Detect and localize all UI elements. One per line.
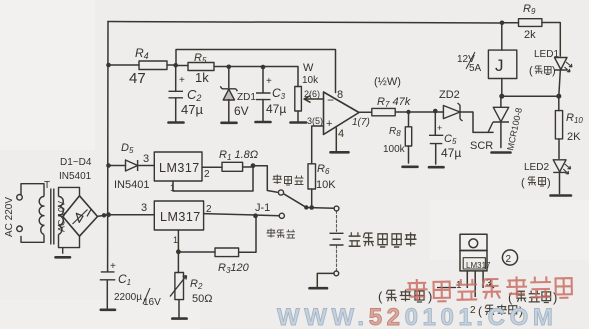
svg-text:(: ( (529, 65, 533, 77)
svg-text:): ) (552, 65, 556, 77)
svg-text:+: + (179, 75, 185, 86)
svg-text:R3120: R3120 (218, 262, 250, 275)
svg-text:1k: 1k (195, 70, 209, 85)
svg-text:AC 10V: AC 10V (57, 201, 67, 232)
svg-text:3: 3 (141, 202, 147, 214)
svg-text:AC 220V: AC 220V (4, 197, 15, 237)
svg-text:+: + (437, 123, 442, 133)
svg-text:J-1: J-1 (255, 202, 270, 214)
svg-text:(: ( (378, 289, 383, 304)
svg-text:1: 1 (173, 235, 178, 245)
svg-text:LED1: LED1 (534, 49, 559, 60)
svg-text:50Ω: 50Ω (192, 293, 212, 305)
svg-text:IN5401: IN5401 (114, 179, 149, 191)
svg-text:2(6): 2(6) (304, 89, 320, 99)
svg-text:5A: 5A (469, 63, 482, 74)
svg-text:(: ( (521, 177, 525, 189)
svg-text:+: + (326, 118, 332, 130)
svg-text:4: 4 (338, 128, 344, 140)
svg-text:1(7): 1(7) (352, 117, 370, 128)
svg-text:T: T (44, 180, 50, 191)
svg-text:IN5401: IN5401 (59, 171, 92, 182)
svg-text:LM317: LM317 (466, 261, 491, 270)
svg-text:6V: 6V (234, 104, 249, 118)
svg-text:10k: 10k (302, 75, 319, 86)
svg-text:3(5): 3(5) (307, 116, 323, 126)
svg-text:LM317: LM317 (160, 210, 201, 224)
svg-text:47: 47 (129, 70, 146, 87)
svg-text:2: 2 (204, 169, 210, 180)
svg-text:(: ( (508, 290, 513, 305)
svg-text:1: 1 (170, 183, 175, 193)
svg-text:100k: 100k (383, 144, 406, 155)
svg-text:10K: 10K (316, 179, 336, 191)
svg-text:): ) (428, 289, 432, 304)
svg-text:R1 1.8Ω: R1 1.8Ω (219, 149, 258, 162)
svg-text:47µ: 47µ (181, 102, 203, 117)
svg-text:W: W (303, 62, 314, 74)
svg-text:2k: 2k (524, 29, 536, 41)
svg-text:LED2: LED2 (524, 162, 549, 173)
svg-text:): ) (547, 177, 551, 189)
svg-text:LM317: LM317 (159, 161, 200, 175)
svg-text:D1~D4: D1~D4 (60, 157, 92, 168)
svg-text:3: 3 (143, 153, 149, 165)
svg-text:WWW.520101.COM: WWW.520101.COM (277, 304, 557, 329)
svg-text:2K: 2K (567, 131, 581, 143)
svg-text:47µ: 47µ (266, 102, 286, 116)
svg-text:−: − (327, 93, 334, 107)
svg-text:SCR: SCR (470, 140, 493, 152)
svg-text:J: J (495, 56, 504, 75)
svg-text:2200µ: 2200µ (114, 292, 142, 303)
svg-text:2: 2 (206, 204, 212, 215)
svg-text:8: 8 (337, 89, 343, 101)
svg-text:47µ: 47µ (441, 146, 461, 160)
svg-text:R7 47k: R7 47k (377, 96, 411, 109)
svg-text:(½W): (½W) (374, 76, 401, 88)
svg-text:+: + (110, 261, 116, 272)
svg-text:ZD2: ZD2 (439, 89, 460, 101)
svg-text:ZD1: ZD1 (237, 92, 256, 103)
svg-text:2: 2 (506, 254, 512, 265)
